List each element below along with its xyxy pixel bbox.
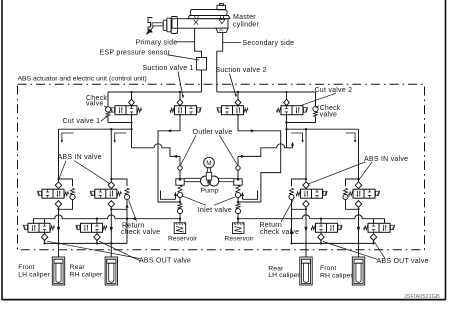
- svg-text:ABS IN valve: ABS IN valve: [364, 156, 408, 163]
- svg-text:Front: Front: [18, 264, 34, 271]
- svg-text:ABS OUT valve: ABS OUT valve: [139, 257, 191, 264]
- svg-text:Pump: Pump: [201, 187, 219, 194]
- piston rods right: [218, 177, 233, 179]
- svg-text:JSFIA0521GB: JSFIA0521GB: [404, 294, 440, 300]
- motor M: [204, 157, 215, 168]
- pushrod disc large: [171, 17, 177, 34]
- tank port right: [220, 16, 224, 19]
- port marks in body: [194, 20, 198, 25]
- clevis fork: [148, 18, 153, 33]
- svg-text:check valve: check valve: [121, 229, 160, 236]
- check valve 1 symbol: [107, 92, 109, 107]
- pushrod: [152, 23, 163, 26]
- suction line 2 upper jog: [238, 115, 281, 202]
- inlet check right (spring+circle): [236, 185, 240, 192]
- return check column left continues down: [126, 209, 128, 243]
- ABS OUT valve D: [368, 223, 390, 232]
- OUT A diamond below: [44, 232, 46, 234]
- cut valve 2: [281, 106, 303, 115]
- outlet valve circle left: [179, 156, 181, 165]
- front RH caliper: [352, 257, 364, 285]
- top rail right: [217, 91, 316, 93]
- pump discharge line right with hop: [238, 144, 293, 157]
- svg-text:M: M: [206, 160, 212, 167]
- svg-text:Cut valve 1: Cut valve 1: [63, 118, 101, 125]
- stub with up arrow right: [292, 144, 294, 148]
- suction valve 2: [222, 106, 244, 115]
- ABS actuator dashed boundary: [18, 84, 425, 250]
- secondary outlet line: [217, 33, 223, 92]
- rail B left (feed to ABS IN): [59, 128, 132, 130]
- cut valve 1 drop: [131, 115, 133, 148]
- reservoir 2: [233, 223, 245, 234]
- svg-text:check valve: check valve: [260, 229, 299, 236]
- rail B right (feed to ABS IN): [287, 128, 359, 130]
- page left border: [1, 0, 3, 300]
- ABS IN valve D: [353, 189, 375, 198]
- svg-text:ESP pressure sensor: ESP pressure sensor: [100, 49, 171, 56]
- cut valve 2 drop: [286, 115, 288, 148]
- svg-text:ABS IN valve: ABS IN valve: [58, 154, 102, 161]
- ABS IN B bypass loop / return check valve: [111, 179, 127, 186]
- svg-text:RH caliper: RH caliper: [70, 272, 103, 279]
- svg-text:LH caliper: LH caliper: [268, 272, 300, 279]
- svg-text:Reservoir: Reservoir: [225, 235, 255, 242]
- diamond above suction valve 1: [179, 92, 181, 99]
- svg-text:Inlet valve: Inlet valve: [198, 207, 232, 214]
- svg-text:Suction valve 1: Suction valve 1: [143, 65, 194, 72]
- ABS IN C bypass loop / return check valve right: [292, 179, 307, 186]
- pump discharge line left with hop: [132, 144, 181, 157]
- ABS OUT valve B: [81, 223, 103, 232]
- master cylinder flange: [188, 16, 230, 19]
- OUT C diamond below: [320, 232, 322, 234]
- check valve 2 symbol: [315, 92, 317, 106]
- master cylinder reservoir cap: [220, 4, 224, 6]
- svg-text:ABS actuator and electric unit: ABS actuator and electric unit (control …: [18, 75, 147, 82]
- piston rods left: [184, 177, 201, 179]
- pushrod disc mid: [167, 18, 171, 32]
- page right border: [445, 0, 447, 300]
- feed line to ABS IN D: [358, 129, 360, 179]
- ABS IN valve D diamonds and column: [358, 179, 360, 182]
- svg-text:Outlet valve: Outlet valve: [193, 129, 233, 136]
- suction line 1: [158, 115, 180, 202]
- OUT B diamond below: [96, 232, 98, 234]
- return check column right continues down: [291, 209, 293, 243]
- ABS IN valve B diamonds and column: [110, 179, 112, 182]
- inner bracket right: [243, 191, 258, 200]
- svg-text:Master: Master: [233, 14, 256, 21]
- piston right: [234, 179, 242, 185]
- wheel line x=306: [305, 209, 307, 257]
- rail A left (check valve return): [108, 122, 132, 124]
- ABS IN D bypass loop: [346, 179, 359, 186]
- svg-text:Rear: Rear: [70, 264, 86, 271]
- pushrod disc small: [163, 20, 167, 30]
- svg-text:valve: valve: [86, 101, 104, 108]
- inner bracket left: [161, 191, 176, 200]
- svg-text:ABS OUT valve: ABS OUT valve: [377, 258, 429, 265]
- feed line to ABS IN A: [58, 129, 60, 179]
- wheel line x=58.5: [58, 209, 60, 257]
- rail 1 left: [34, 215, 181, 223]
- front LH caliper: [52, 257, 64, 285]
- diamond above suction valve 2: [237, 92, 239, 99]
- feed line to ABS IN C: [305, 129, 307, 179]
- svg-text:Cut valve 2: Cut valve 2: [315, 87, 353, 94]
- primary line below sensor: [201, 70, 203, 92]
- svg-text:Front: Front: [320, 265, 336, 272]
- ABS IN valve C: [301, 189, 323, 198]
- master cylinder nose: [216, 28, 228, 32]
- reservoir check right (spring+circle): [237, 202, 239, 203]
- svg-text:RH caliper: RH caliper: [320, 273, 353, 280]
- rail 2 right (return): [292, 242, 374, 244]
- wheel line x=111.3: [110, 209, 112, 257]
- suction valve 1: [175, 106, 197, 115]
- port dots top valve row: [131, 105, 133, 107]
- feed line to ABS IN B: [110, 129, 112, 179]
- tank port left: [195, 16, 199, 19]
- rail A right (check valve return): [287, 122, 316, 124]
- svg-text:LH caliper: LH caliper: [18, 272, 50, 279]
- ABS IN valve A: [42, 189, 64, 198]
- svg-text:Reservoir: Reservoir: [168, 235, 198, 242]
- svg-text:Suction valve 2: Suction valve 2: [216, 67, 267, 74]
- pump eccentric: [201, 176, 211, 186]
- motor shaft: [206, 168, 208, 173]
- OUT D diamond below: [373, 232, 375, 234]
- input arrow: [146, 29, 153, 36]
- cut valve 1: [115, 106, 137, 115]
- rail 1 right: [238, 215, 385, 223]
- rail 2 left (return): [45, 242, 128, 244]
- primary outlet line: [195, 28, 202, 57]
- svg-text:Secondary side: Secondary side: [243, 40, 295, 47]
- reservoir check left (spring+circle): [179, 202, 181, 203]
- ABS IN A bypass loop: [59, 179, 73, 186]
- reservoir 1: [174, 223, 186, 234]
- rear RH caliper: [105, 257, 117, 285]
- master cylinder reservoir tank: [191, 10, 228, 16]
- wheel line x=358.5: [358, 209, 360, 257]
- piston left: [176, 179, 184, 185]
- diamond above cut valve 2: [286, 92, 288, 99]
- rear LH caliper: [300, 257, 312, 285]
- top rail left: [108, 91, 202, 93]
- ABS IN valve A diamonds and column: [58, 179, 60, 182]
- outlet valve circle right: [237, 156, 239, 165]
- svg-text:Primary side: Primary side: [136, 39, 178, 46]
- svg-text:cylinder: cylinder: [233, 22, 260, 29]
- ABS IN valve B: [95, 189, 117, 198]
- ESP pressure sensor: [197, 58, 207, 71]
- ABS OUT valve C: [316, 223, 338, 232]
- ABS OUT valve A: [28, 223, 50, 232]
- inlet check left (spring+circle): [178, 185, 182, 192]
- ABS IN valve C diamonds and column: [305, 179, 307, 182]
- page bottom border: [2, 299, 446, 301]
- master cylinder body: [172, 19, 228, 29]
- svg-text:valve: valve: [320, 111, 338, 118]
- diamond above cut valve 1: [131, 92, 133, 99]
